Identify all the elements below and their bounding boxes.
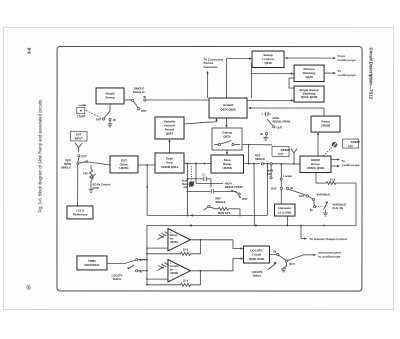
svg-text:IN: IN [310,208,313,212]
svg-text:Sweep: Sweep [105,96,115,100]
wire sweep lockout to oscilloscope (double arrow) [285,54,357,62]
svg-text:SWEEP: SWEEP [351,140,361,144]
svg-text:OUT: OUT [242,197,248,201]
svg-text:10 k: 10 k [330,178,336,182]
svg-text:Q614: Q614 [166,132,174,136]
pot scan control + ground [83,165,111,193]
svg-text:IN: IN [273,249,276,253]
wire horiz driver to reset [317,132,319,156]
high resolution out switch (top) [260,112,290,141]
svg-text:Q624 Q630: Q624 Q630 [220,108,236,112]
high resolution switch (lower) [187,182,248,201]
svg-text:CAL: CAL [348,144,354,148]
svg-text:Inv: Inv [170,237,174,241]
block Attenuator [274,190,295,226]
wire gating switch to sweep out [242,144,272,165]
svg-text:3-6: 3-6 [27,47,32,54]
svg-text:INPUT: INPUT [75,136,83,140]
resistor 10k input B [146,271,200,287]
svg-text:OUT: OUT [96,117,102,121]
pot SWEEP CAL [324,139,361,156]
svg-text:U620A: U620A [170,240,178,244]
pot scan rate adj [182,166,195,189]
svg-text:Circuit Description—7S12: Circuit Description—7S12 [369,48,374,100]
svg-text:CR628: CR628 [321,124,331,128]
svg-text:SINGLE: SINGLE [61,166,71,170]
svg-text:IN: IN [139,269,142,273]
switch REF SINGLE (right of slow ramp) [243,153,300,225]
switch VARIABLE cal [299,192,346,216]
svg-text:Inv: Inv [170,268,174,272]
svg-text:DISTANCE: DISTANCE [84,263,99,267]
wire reset to holdoff [248,107,324,116]
svg-text:OUT: OUT [289,262,295,266]
wire gating to slow ramp [226,150,228,155]
block Sweep Lockout [252,51,284,68]
wires horiz driver to oscilloscope [331,158,360,167]
wire opamp B output [190,257,243,271]
svg-text:SINGLE: SINGLE [255,157,265,161]
svg-text:®: ® [26,285,31,292]
block Reset CR628 [311,116,340,132]
wire opamp A output [190,239,243,250]
svg-text:REP: REP [65,158,71,162]
wire retrace to oscilloscope [324,69,356,77]
block +12 V Reference [67,165,93,219]
svg-text:oscilloscope: oscilloscope [338,58,357,62]
wire to correction period generator [204,57,224,98]
wire switch to Holdoff [146,99,209,101]
node EXT [78,155,87,159]
svg-text:Locate: Locate [170,264,179,268]
svg-text:to oscilloscope: to oscilloscope [318,254,340,258]
wire holdoff to single sweep blanking [247,99,294,101]
svg-text:REF: REF [255,153,261,157]
op-amp U620A ramp inv [146,228,190,251]
svg-text:IN: IN [260,132,263,136]
svg-text:IN: IN [290,186,293,190]
svg-text:U656C Q660: U656C Q660 [307,166,325,170]
block Single Sweep [96,88,124,104]
svg-text:Generator: Generator [204,65,219,69]
block Holdoff [209,98,247,118]
svg-text:oscilloscope: oscilloscope [342,163,361,167]
wire bus line1 [146,165,267,217]
svg-text:(CAL IN): (CAL IN) [332,206,343,210]
svg-text:Locate: Locate [283,174,292,178]
block Retrace Blanking [294,65,324,82]
svg-text:Q646: Q646 [264,61,272,65]
wire scan amp to variable holdoff [168,139,170,153]
svg-text:Q695 U690: Q695 U690 [249,257,265,261]
svg-text:Attenuator: Attenuator [278,206,292,210]
svg-text:OUT: OUT [299,194,305,198]
svg-text:10 k: 10 k [183,247,189,251]
svg-text:RESOLUTION: RESOLUTION [273,120,291,124]
capacitor C1 loop [186,163,211,216]
svg-text:IN: IN [143,95,146,99]
block Scan Amp [155,153,184,173]
svg-text:Switch: Switch [253,273,262,277]
svg-text:IN: IN [113,118,116,122]
svg-text:REF: REF [215,197,221,201]
switch LOCATE out/in [107,258,148,281]
svg-text:LOCATE: LOCATE [112,273,123,277]
connector SWEEP OUT [272,147,297,165]
block Variable Holdoff Period [155,117,184,139]
svg-text:U626C: U626C [119,166,129,170]
svg-text:VARIABLE: VARIABLE [316,192,330,196]
resistor 10 k loop to variable [316,173,356,226]
svg-text:1X to S401: 1X to S401 [278,210,292,214]
svg-text:Q670: Q670 [223,135,231,139]
svg-text:LOCATE: LOCATE [252,270,263,274]
svg-text:U630B Q610: U630B Q610 [161,165,179,169]
wire retrace to single sweep blanking bracket [289,78,294,88]
wire holdoff to retrace blanking [252,63,295,98]
svg-text:VARIABLE: VARIABLE [332,202,346,206]
switch ref/single man/ext (lower) [203,197,240,217]
svg-text:MAN EXT: MAN EXT [218,211,230,215]
wire scan amp to slow ramp [184,163,211,165]
block TIME/DISTANCE [77,256,107,270]
svg-text:10 k: 10 k [183,278,189,282]
svg-text:U620B: U620B [170,271,178,275]
switch MAN EXT / Locate / OUT IN cluster [267,163,307,216]
wires holdoff to gating [225,118,227,128]
block Slow Ramp [211,155,244,173]
svg-text:CCW: CCW [92,186,99,190]
svg-text:EXT: EXT [76,133,82,137]
svg-text:SWEEP: SWEEP [281,148,291,152]
svg-text:Switch: Switch [113,277,122,281]
wire to inverter output control [301,226,347,241]
svg-text:OUT: OUT [271,187,277,191]
block HORIZ Driver [300,156,331,173]
resistor 10k input A [146,240,200,256]
block Gating [212,128,242,150]
svg-text:SINGLE: SINGLE [215,200,225,204]
svg-text:HIGH: HIGH [273,116,280,120]
svg-text:Fig. 3-6. Block diagram of Slo: Fig. 3-6. Block diagram of Slow Ramp and… [37,99,42,213]
svg-text:Q636: Q636 [305,75,313,79]
svg-text:oscilloscope: oscilloscope [338,73,357,77]
op-amp U620B locate inv [146,259,190,282]
switch REP/MAIN/SINGLE [61,157,110,170]
block LOCATE Circuit [243,246,269,263]
svg-text:START: START [77,115,86,119]
dashed wire START to switch [86,110,101,117]
figure frame [57,46,362,291]
svg-text:Q604, Q638: Q604, Q638 [301,95,318,99]
svg-text:Sweep In.: Sweep In. [133,90,146,94]
svg-text:RESOLUTION: RESOLUTION [225,185,243,189]
connector START [77,104,86,118]
block EXT Driver [110,156,138,173]
wire ext driver to scan amp [138,164,155,166]
svg-text:OUT: OUT [277,126,283,130]
svg-text:OUT: OUT [139,258,145,262]
svg-text:To Inverter Output Control: To Inverter Output Control [309,237,347,241]
switch start out/in with ground [96,104,116,127]
connector EXT INPUT [71,131,88,152]
switch locate in/out + ground [252,249,342,277]
wire variable holdoff to holdoff [184,118,218,124]
wire bus line2 [147,224,356,285]
svg-text:Reference: Reference [73,213,88,217]
svg-text:OUT: OUT [141,109,147,113]
svg-text:OUT: OUT [278,152,284,156]
svg-text:EXT: EXT [82,155,88,159]
svg-text:HIGH: HIGH [225,182,232,186]
svg-text:Holdoff: Holdoff [223,103,234,107]
svg-text:U635D: U635D [223,166,233,170]
svg-text:CW: CW [83,172,88,176]
switch single sweep in/out [124,95,147,113]
wire holdoff to sweep lockout [227,57,253,98]
svg-text:SINGLE: SINGLE [134,86,144,90]
block Single Sweep Blanking [294,86,324,102]
label SINGLE Sweep In. [133,86,146,94]
svg-text:MAIN: MAIN [64,162,71,166]
